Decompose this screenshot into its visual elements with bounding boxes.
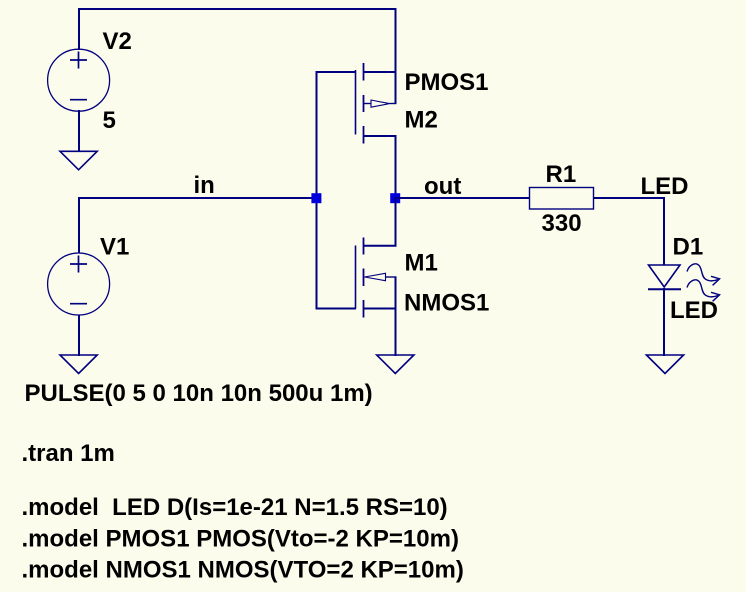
wire LED anode vertical [663,197,665,266]
svg-text:.model LED D(Is=1e-21 N=1.5 R: .model LED D(Is=1e-21 N=1.5 RS=10) [22,494,448,521]
voltage source V2 [48,49,110,111]
svg-text:.model NMOS1 NMOS(VTO=2 KP=10m: .model NMOS1 NMOS(VTO=2 KP=10m) [22,557,464,584]
wire NMOS gate connect [316,308,357,310]
svg-text:in: in [194,172,215,199]
ground under V2 [60,151,97,170]
voltage source V1 [48,253,110,315]
svg-text:NMOS1: NMOS1 [404,289,489,316]
svg-text:LED: LED [670,297,718,324]
ground under D1 [646,355,683,374]
node junction out [390,193,400,203]
svg-text:D1: D1 [673,234,704,261]
wire V2 bottom lead [78,110,80,152]
svg-text:LED: LED [641,173,689,200]
wire R1 to LED corner [593,197,665,199]
transistor M1 NMOS symbol [356,238,397,318]
wire top rail V2 to PMOS source [78,8,396,10]
wire V2 top lead [78,8,80,50]
LED light arrow 1 [687,264,720,285]
svg-text:out: out [424,173,461,200]
ground under V1 [60,355,97,374]
wire NMOS drain drop [395,197,397,246]
wire PMOS right vertical from rail [395,8,397,104]
wire V1 bottom lead [78,315,80,356]
svg-text:M2: M2 [405,107,438,134]
svg-text:PMOS1: PMOS1 [405,69,489,96]
svg-text:5: 5 [103,107,116,134]
svg-text:V2: V2 [103,28,132,55]
wire PMOS gate connect [316,71,357,73]
wire V1 top lead [78,197,80,253]
svg-text:M1: M1 [405,249,438,276]
svg-text:V1: V1 [100,233,129,260]
wire PMOS drain drop [395,136,397,199]
svg-text:330: 330 [542,210,582,237]
svg-text:PULSE(0 5 0 10n 10n 500u 1m): PULSE(0 5 0 10n 10n 500u 1m) [25,380,373,407]
wire NMOS source to ground [395,277,397,356]
svg-text:.model PMOS1 PMOS(Vto=-2 KP=10: .model PMOS1 PMOS(Vto=-2 KP=10m) [22,525,459,552]
wire out net horizontal [395,197,530,199]
diode D1 [648,265,681,289]
svg-text:.tran 1m: .tran 1m [22,440,115,467]
node junction in [311,193,321,203]
svg-text:R1: R1 [546,161,577,188]
LED light arrow 2 [687,280,720,301]
wire in net horizontal [78,197,317,199]
wire LED cathode to ground [663,288,665,356]
transistor M2 PMOS symbol [356,63,397,144]
resistor R1 [530,188,594,210]
ground under M1 [377,355,414,374]
wire gate feed vertical [316,71,318,309]
